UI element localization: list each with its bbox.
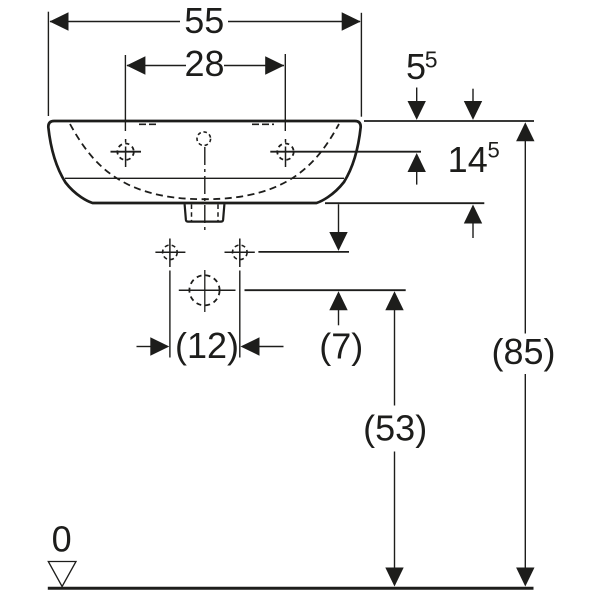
svg-text:5: 5 [406,46,426,87]
rim recess dash left [139,123,159,125]
left fixing hole crosshair [155,251,185,253]
right fixing hole crosshair [225,251,255,253]
drain hole below (dashed circle) [189,275,219,305]
svg-text:(85): (85) [491,331,555,372]
right fixing hole (dashed circle) [233,245,248,260]
dim 55 left arrow [50,12,69,30]
dim 28 left extension line [124,55,126,131]
dim 28 left arrow [126,56,145,74]
dim 55 line [50,21,360,23]
basin outer outline [48,121,360,203]
right tap hole crosshair + leader to 5.5 dim [270,151,421,153]
svg-text:55: 55 [184,0,224,41]
dim 14.5 lower arrow (up) [464,205,482,224]
svg-text:5: 5 [425,47,438,73]
drain hole crosshair horizontal [179,289,236,291]
ground line [48,587,534,590]
svg-text:5: 5 [487,138,499,163]
dim 85 upper arrow (up) [516,122,534,141]
drain hole level line [245,289,406,291]
dim 14.5 upper arrow (down) [472,89,474,103]
dim 5.5 lower arrow (up) [408,153,426,172]
dim 12 right extension line [239,271,241,358]
fixing hole level line [258,251,349,253]
overflow hole (dashed circle) [197,132,211,146]
dim 7 lower arrow (up) [329,291,347,310]
rim level line [364,120,534,122]
dim 5.5 upper arrow (down) [416,88,418,104]
dim 7 upper arrow (down) [338,204,340,234]
dim 55 right extension line [360,13,362,117]
drain centerline [204,147,206,232]
datum triangle [48,562,76,587]
drain outlet inner hidden lines [192,205,219,221]
svg-text:28: 28 [184,43,224,84]
drain outlet [185,204,225,221]
bottom level line [325,202,484,204]
left tap hole crosshair horizontal [111,151,142,153]
left fixing hole (dashed circle) [163,245,178,260]
svg-text:(7): (7) [319,326,363,367]
rim recess dash right [252,123,274,125]
left tap hole (dashed circle) [117,144,133,160]
svg-text:(12): (12) [175,325,239,366]
left tap hole centerline dashes [125,139,127,167]
basin inner bowl hidden outline (dashed) [70,124,339,199]
dim 28 line [127,65,284,67]
svg-text:14: 14 [448,139,488,180]
dim 55 right arrow [342,12,361,30]
basin waist line [65,177,344,179]
svg-text:0: 0 [52,519,72,560]
dim 53 lower line + arrow (down) [394,452,396,570]
dim 12 right arrow [241,337,260,355]
dim 12 left extension line [169,271,171,358]
dim 55 left extension line [47,12,49,116]
svg-text:(53): (53) [363,407,427,448]
dim 28 right arrow [265,56,284,74]
dim 28 right extension line [284,54,286,131]
right tap hole centerline dashes [285,139,287,167]
right tap hole (dashed circle) [277,144,293,160]
dim 53 upper arrow (up) [385,291,403,310]
drain hole crosshair vertical [204,270,206,312]
dim 12 left arrow [137,346,152,348]
dim 85 lower line + arrow (down) [524,374,526,569]
